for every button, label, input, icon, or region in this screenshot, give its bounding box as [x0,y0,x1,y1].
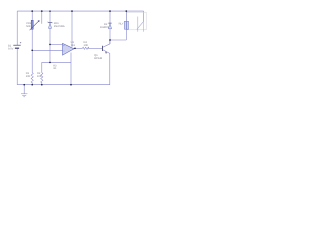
svg-text:RLY: RLY [119,22,124,25]
svg-text:10K: 10K [37,75,42,78]
svg-text:741: 741 [71,44,76,47]
svg-text:50K: 50K [26,25,31,28]
svg-text:9.5V: 9.5V [8,48,14,51]
svg-text:10K: 10K [26,75,31,78]
svg-text:BC548: BC548 [94,57,102,60]
svg-text:1N4007: 1N4007 [100,26,110,29]
svg-text:1N4738A: 1N4738A [54,25,65,28]
svg-text:10K: 10K [84,44,89,47]
svg-text:1K: 1K [53,67,56,70]
